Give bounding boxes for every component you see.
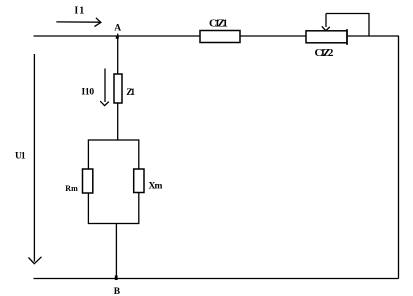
svg-text:C1Z1: C1Z1 (209, 18, 227, 30)
impedance box C1Z2 (306, 31, 347, 43)
svg-text:U1: U1 (15, 152, 26, 162)
resistor box Rm (83, 169, 93, 193)
reactance box Xm (134, 169, 144, 193)
svg-text:B: B (114, 287, 121, 296)
wire top segment right (347, 35, 399, 37)
magnetizing branch loop (88, 140, 138, 224)
wire top segment left (34, 35, 201, 37)
wire bottom (34, 278, 399, 280)
junction node B (115, 275, 118, 280)
wiper link wire (326, 14, 369, 37)
wire top segment middle (240, 35, 306, 37)
current arrow I1 (56, 18, 101, 27)
svg-text:A: A (114, 24, 121, 34)
wire Z1 down to magnetizing loop (117, 103, 119, 140)
impedance box C1Z1 (200, 31, 240, 43)
wire right side (398, 36, 400, 279)
svg-text:Xm: Xm (149, 182, 163, 192)
C1Z2 right edge tick (346, 29, 348, 45)
svg-text:Rm: Rm (65, 184, 78, 193)
current arrow I10 (100, 69, 109, 106)
svg-text:I10: I10 (82, 88, 95, 98)
voltage arrow U1 (29, 54, 42, 264)
wire node A down to Z1 (117, 34, 119, 74)
svg-text:I1: I1 (74, 6, 85, 17)
wiper arrow onto C1Z2 (322, 14, 330, 31)
wire loop bottom to node B (115, 224, 117, 279)
junction node A (116, 36, 119, 39)
impedance box Z1 (114, 74, 122, 103)
